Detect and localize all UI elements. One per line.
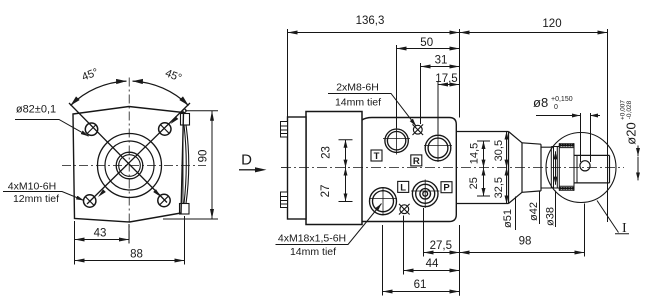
svg-text:98: 98 (519, 236, 532, 248)
svg-text:45°: 45° (163, 67, 183, 84)
svg-text:T: T (374, 151, 380, 162)
svg-text:4xM18x1,5-6H: 4xM18x1,5-6H (278, 233, 346, 245)
svg-text:+0,150: +0,150 (551, 96, 573, 103)
svg-text:ø38: ø38 (545, 207, 557, 226)
svg-text:P: P (443, 183, 450, 194)
svg-text:0: 0 (554, 104, 558, 111)
svg-text:44: 44 (426, 258, 439, 270)
svg-text:90: 90 (198, 150, 210, 163)
svg-text:45°: 45° (80, 66, 100, 83)
svg-text:-0,028: -0,028 (626, 100, 633, 119)
svg-text:120: 120 (542, 18, 561, 30)
svg-text:23: 23 (321, 146, 333, 159)
svg-text:88: 88 (130, 249, 143, 261)
svg-text:L: L (400, 182, 406, 193)
svg-text:30,5: 30,5 (493, 140, 505, 161)
svg-text:17,5: 17,5 (435, 73, 457, 85)
svg-text:14mm tief: 14mm tief (290, 246, 336, 258)
svg-text:ø82±0,1: ø82±0,1 (16, 104, 56, 116)
svg-text:R: R (413, 156, 420, 167)
svg-text:50: 50 (420, 37, 433, 49)
svg-text:2xM8-6H: 2xM8-6H (336, 82, 379, 94)
svg-text:4xM10-6H: 4xM10-6H (8, 181, 56, 193)
svg-text:43: 43 (94, 228, 107, 240)
svg-text:31: 31 (435, 55, 448, 67)
svg-text:D: D (241, 152, 252, 169)
svg-text:14mm tief: 14mm tief (335, 97, 381, 109)
svg-text:ø51: ø51 (502, 209, 514, 228)
svg-text:I: I (622, 221, 627, 236)
svg-text:32,5: 32,5 (493, 177, 505, 198)
svg-text:ø42: ø42 (528, 202, 540, 221)
svg-text:14,5: 14,5 (469, 143, 481, 164)
svg-text:12mm tief: 12mm tief (13, 193, 59, 205)
svg-text:25: 25 (468, 177, 480, 189)
svg-text:ø20: ø20 (624, 122, 639, 144)
svg-text:27: 27 (320, 185, 332, 198)
svg-text:ø8: ø8 (533, 95, 548, 110)
svg-text:61: 61 (414, 279, 427, 291)
svg-text:27,5: 27,5 (430, 240, 452, 252)
svg-text:136,3: 136,3 (356, 15, 385, 27)
